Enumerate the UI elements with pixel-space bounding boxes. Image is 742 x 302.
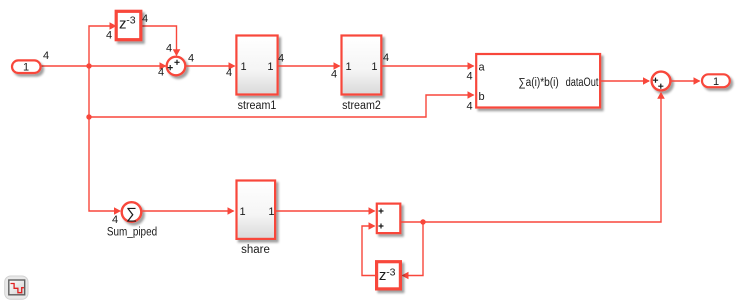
wire Z1 output to Sum1 top input bbox=[141, 26, 180, 56]
svg-text:dataOut: dataOut bbox=[566, 77, 599, 89]
wire Sum2 to Out1 bbox=[671, 77, 700, 85]
svg-text:4: 4 bbox=[166, 43, 172, 55]
svg-text:4: 4 bbox=[466, 101, 472, 113]
svg-text:4: 4 bbox=[226, 67, 232, 79]
add block Add1 bbox=[377, 204, 401, 234]
wire share to Add1 first input bbox=[276, 207, 376, 215]
wire junction A down to Sum_piped input bbox=[89, 66, 121, 215]
svg-text:4: 4 bbox=[383, 52, 389, 64]
subsystem share bbox=[237, 181, 276, 257]
outport Out1 bbox=[702, 74, 730, 88]
wire junction A up to Z1 input bbox=[89, 22, 117, 66]
svg-text:b: b bbox=[479, 91, 485, 103]
node junction A bbox=[86, 63, 91, 68]
svg-text:4: 4 bbox=[106, 30, 112, 42]
svg-text:1: 1 bbox=[346, 61, 352, 73]
svg-text:1: 1 bbox=[240, 206, 246, 218]
svg-text:stream2: stream2 bbox=[342, 100, 381, 112]
svg-text:4: 4 bbox=[158, 67, 164, 79]
wire In1 to Sum1 bbox=[41, 62, 167, 70]
svg-text:4: 4 bbox=[43, 50, 49, 62]
sum block Sum1 bbox=[167, 57, 186, 76]
wire stream2 to a input of U1 bbox=[382, 62, 475, 70]
svg-text:4: 4 bbox=[142, 13, 148, 25]
svg-text:1: 1 bbox=[713, 76, 719, 88]
wire U1 output to Sum2 bbox=[601, 77, 650, 85]
dot product subsystem U1 bbox=[476, 54, 600, 108]
svg-text:1: 1 bbox=[23, 62, 29, 74]
svg-text:1: 1 bbox=[371, 61, 377, 73]
svg-text:∑: ∑ bbox=[126, 206, 137, 223]
svg-text:4: 4 bbox=[466, 71, 472, 83]
wire stream1 to stream2 bbox=[278, 62, 341, 70]
wire junction C down to Z2 input bbox=[402, 222, 424, 279]
wire junction B to b input of U1 bbox=[89, 91, 475, 117]
node junction C bbox=[420, 219, 425, 224]
svg-text:stream1: stream1 bbox=[238, 100, 277, 112]
svg-text:-3: -3 bbox=[126, 15, 135, 27]
delay block Z1 z^-3 bbox=[116, 11, 141, 39]
sum block Sum_piped bbox=[107, 202, 157, 238]
subsystem stream1 bbox=[236, 36, 277, 112]
svg-text:1: 1 bbox=[267, 61, 273, 73]
wire Sum1 to stream1 bbox=[185, 62, 235, 70]
svg-text:4: 4 bbox=[331, 69, 337, 81]
wire Sum_piped to share bbox=[143, 207, 235, 215]
svg-text:1: 1 bbox=[268, 206, 274, 218]
sum block Sum2 bbox=[652, 72, 671, 91]
delay block Z2 z^-3 (mirrored) bbox=[377, 262, 401, 289]
svg-text:Sum_piped: Sum_piped bbox=[107, 227, 157, 239]
sample time legend badge bbox=[5, 276, 28, 299]
wire Add1 output to Sum2 bottom input bbox=[401, 92, 665, 222]
svg-text:a: a bbox=[479, 62, 486, 74]
svg-text:1: 1 bbox=[241, 61, 247, 73]
svg-text:-3: -3 bbox=[386, 266, 395, 278]
svg-text:share: share bbox=[241, 244, 270, 256]
svg-text:∑a(i)*b(i): ∑a(i)*b(i) bbox=[518, 77, 559, 89]
inport In1 bbox=[12, 60, 41, 73]
svg-text:4: 4 bbox=[112, 214, 118, 226]
svg-text:4: 4 bbox=[188, 53, 194, 65]
subsystem stream2 bbox=[342, 36, 382, 112]
svg-text:4: 4 bbox=[278, 53, 284, 65]
wire Z2 output to Add1 second input bbox=[362, 222, 376, 275]
node junction B bbox=[86, 114, 91, 119]
